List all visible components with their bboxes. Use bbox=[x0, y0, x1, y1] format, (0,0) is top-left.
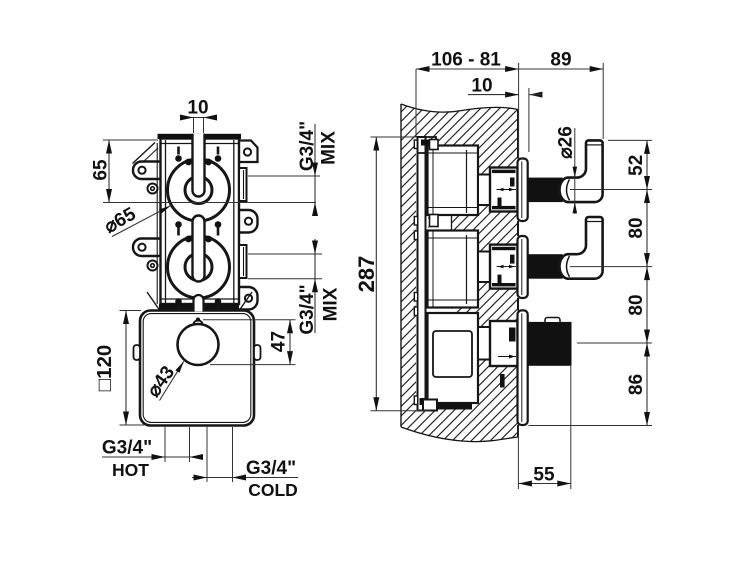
svg-text:86: 86 bbox=[626, 374, 647, 395]
svg-text:COLD: COLD bbox=[248, 480, 298, 500]
svg-text:80: 80 bbox=[626, 294, 647, 315]
svg-text:□120: □120 bbox=[93, 345, 116, 392]
svg-text:MIX: MIX bbox=[320, 287, 341, 321]
svg-text:HOT: HOT bbox=[112, 460, 149, 480]
svg-text:287: 287 bbox=[354, 256, 379, 293]
svg-text:65: 65 bbox=[90, 159, 111, 181]
svg-text:80: 80 bbox=[626, 217, 647, 238]
svg-text:10: 10 bbox=[187, 97, 208, 118]
svg-text:106 - 81: 106 - 81 bbox=[431, 49, 501, 70]
svg-text:89: 89 bbox=[550, 49, 571, 70]
svg-text:55: 55 bbox=[533, 464, 555, 485]
svg-text:⌀26: ⌀26 bbox=[555, 126, 576, 159]
svg-text:G3/4": G3/4" bbox=[102, 437, 152, 458]
svg-text:10: 10 bbox=[471, 75, 492, 96]
svg-text:52: 52 bbox=[626, 155, 647, 176]
svg-text:MIX: MIX bbox=[318, 131, 339, 165]
svg-text:G3/4": G3/4" bbox=[246, 458, 296, 479]
svg-text:47: 47 bbox=[268, 331, 289, 352]
